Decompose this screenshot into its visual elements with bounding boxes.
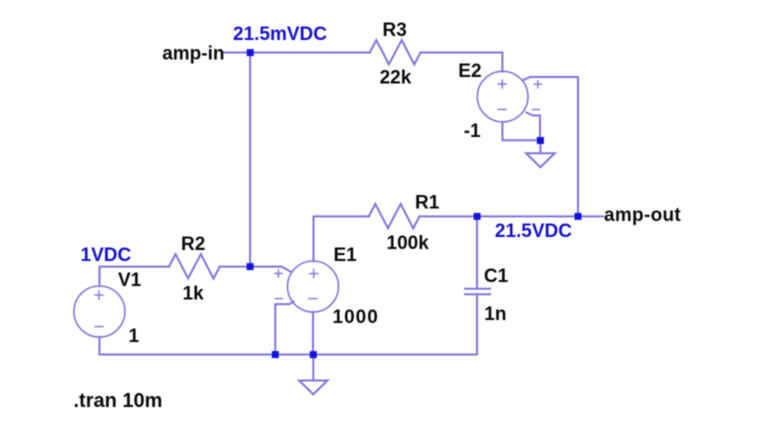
svg-text:21.5mVDC: 21.5mVDC — [233, 24, 327, 45]
svg-text:1: 1 — [129, 326, 140, 347]
svg-text:1000: 1000 — [333, 307, 379, 328]
svg-text:.tran 10m: .tran 10m — [74, 390, 163, 412]
svg-text:-1: -1 — [464, 121, 481, 142]
svg-text:E2: E2 — [458, 61, 481, 82]
svg-text:1n: 1n — [484, 304, 506, 325]
svg-text:C1: C1 — [484, 266, 509, 287]
svg-text:1k: 1k — [183, 284, 205, 305]
svg-text:100k: 100k — [387, 233, 430, 254]
svg-text:1VDC: 1VDC — [81, 245, 132, 266]
svg-text:21.5VDC: 21.5VDC — [495, 221, 572, 242]
svg-text:22k: 22k — [380, 67, 412, 88]
svg-text:R2: R2 — [181, 234, 205, 255]
svg-text:R3: R3 — [383, 20, 407, 41]
svg-text:amp-in: amp-in — [162, 43, 224, 64]
svg-text:V1: V1 — [118, 270, 142, 291]
svg-text:E1: E1 — [334, 245, 358, 266]
svg-text:R1: R1 — [415, 193, 440, 214]
svg-text:amp-out: amp-out — [604, 205, 681, 226]
